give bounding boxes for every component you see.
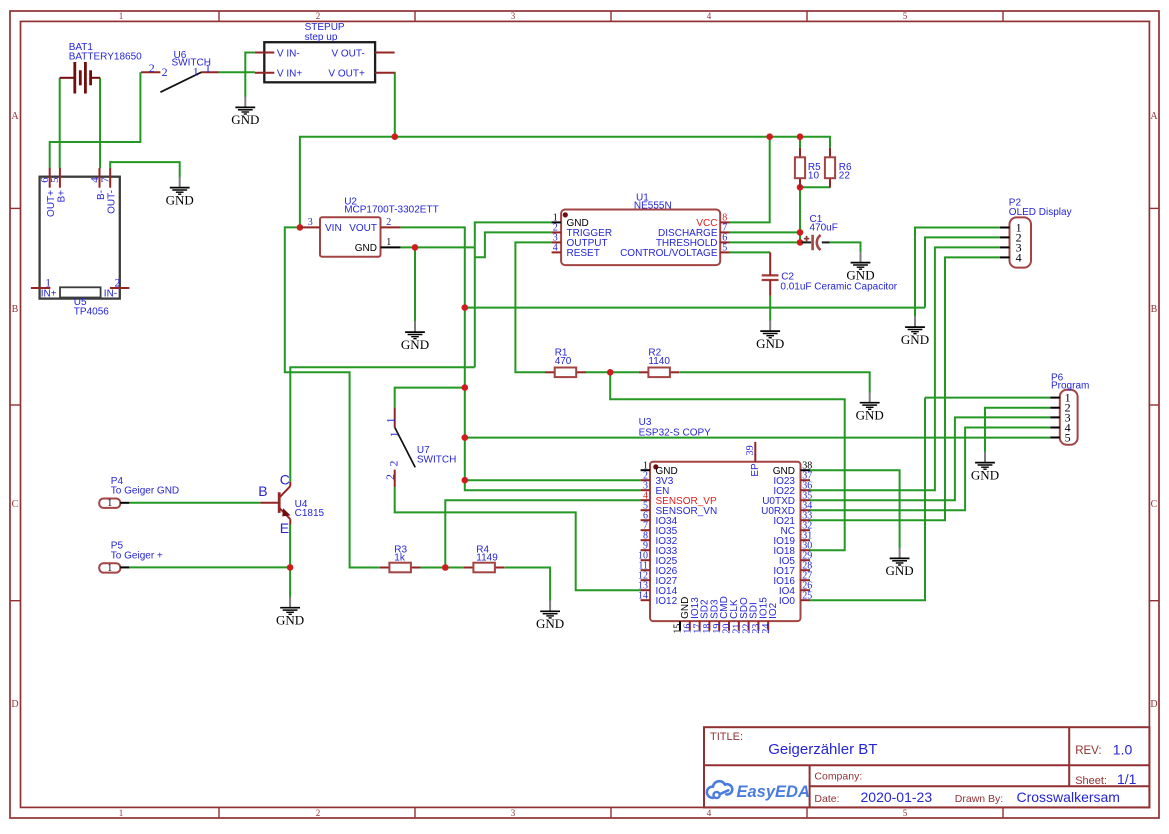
ground C1 (846, 252, 874, 283)
svg-text:2: 2 (316, 11, 321, 21)
U1 pin1 marker (563, 212, 568, 217)
U3 pin 20 stub (728, 621, 730, 631)
wire C1 to GND (830, 242, 861, 252)
wire U1 OUTPUT to R1 (515, 242, 551, 372)
svg-text:IO12: IO12 (656, 596, 678, 607)
P2 pin 1 stub (1000, 227, 1010, 229)
wire OUT- to GND (110, 162, 180, 177)
P5 pin 1 stub (120, 566, 129, 568)
svg-text:1.0: 1.0 (1113, 741, 1133, 757)
U3 pin 11 stub (641, 569, 650, 571)
U3 pin 28 stub (801, 569, 811, 571)
svg-text:24: 24 (761, 624, 772, 634)
svg-text:1140: 1140 (648, 356, 670, 367)
svg-text:2020-01-23: 2020-01-23 (861, 789, 933, 805)
node R1/R2 node (607, 369, 614, 376)
capacitor C2 0.01uF (762, 275, 779, 280)
P6 pin 1 stub (1050, 397, 1060, 399)
U3 pin 4 stub (641, 499, 650, 501)
svg-text:step up: step up (305, 32, 338, 43)
svg-text:3: 3 (511, 808, 516, 818)
U1 pin 7 stub (720, 231, 729, 233)
svg-text:ESP32-S COPY: ESP32-S COPY (639, 428, 712, 439)
EasyEDA logo (707, 781, 732, 798)
U3 pin 24 stub (767, 621, 769, 631)
svg-text:To Geiger GND: To Geiger GND (111, 486, 179, 497)
svg-text:5: 5 (903, 808, 908, 818)
U3 pin 8 stub (641, 539, 650, 541)
svg-text:1k: 1k (394, 553, 406, 564)
wire U2 GND to riser (400, 246, 474, 248)
svg-text:A: A (11, 111, 19, 122)
wire 3V3 to U7 pin1 (395, 388, 465, 408)
svg-text:B+: B+ (56, 190, 67, 203)
U1 pin 8 stub (720, 221, 729, 223)
wire P2 pin2 down to 3V3 rail (925, 237, 1000, 307)
svg-text:V IN+: V IN+ (277, 69, 302, 80)
U3 pin 29 stub (801, 559, 811, 561)
U3 pin 17 stub (699, 621, 701, 631)
svg-text:SWITCH: SWITCH (417, 454, 456, 465)
svg-text:1: 1 (386, 237, 391, 248)
U3 pin 22 stub (748, 621, 750, 631)
wire R4 to GND (505, 568, 550, 602)
wire 3V3 branch to P6 pin5 / IO18 (465, 437, 1051, 439)
battery BAT1 (60, 62, 100, 94)
wire U1 VCC to rail (730, 137, 770, 223)
node 3V3 rail tap (462, 304, 469, 311)
U3 pin 10 stub (641, 559, 650, 561)
svg-text:OLED Display: OLED Display (1009, 207, 1072, 218)
svg-text:EasyEDA: EasyEDA (737, 783, 810, 801)
wire OUT+ to U6 pin2 (50, 72, 141, 168)
U3 pin 18 stub (708, 621, 710, 631)
title block (704, 727, 1149, 807)
ground P6 pin2 (971, 452, 999, 483)
node rail/R5 (797, 133, 804, 140)
U1 pin 6 stub (720, 241, 729, 243)
svg-text:5: 5 (1065, 430, 1071, 444)
svg-text:1: 1 (119, 11, 124, 21)
U3 pin 38 stub (801, 469, 811, 471)
U3 pin 19 stub (718, 621, 720, 631)
svg-text:U3: U3 (639, 417, 652, 428)
wire 3V3 to ESP 3V3 pin (465, 479, 641, 481)
P6 pin 3 stub (1050, 416, 1060, 418)
U3 pin 21 stub (738, 621, 740, 631)
wire U1 TRIGGER jog (475, 232, 552, 257)
wire R2 to GND (680, 372, 870, 392)
ground C2 (756, 320, 784, 351)
U3 pin 5 stub (641, 509, 650, 511)
svg-text:Program: Program (1051, 381, 1089, 392)
U3 pin 36 stub (801, 489, 811, 491)
wire R5 bottom down to discharge/threshold (799, 187, 801, 242)
svg-text:GND: GND (355, 243, 377, 254)
wire ESP IO21 to P2 pin4 (810, 257, 1000, 520)
wire V OUT+ down to rail (394, 73, 396, 137)
ground ESP GND38 (886, 547, 914, 578)
wire IO0 riser to P6 pin1 (925, 397, 1050, 399)
resistor R4 (464, 567, 474, 569)
wire rail to R5 top (799, 137, 801, 148)
svg-text:B: B (1151, 304, 1158, 315)
U3 pin1 marker (653, 464, 658, 469)
resistor R6 (829, 148, 831, 158)
node U2 GND node (412, 244, 419, 251)
U5 pin 6 stub (49, 168, 51, 188)
U3 pin 33 stub (801, 519, 811, 521)
wire U2 VOUT down to ESP EN (400, 227, 640, 490)
wire U1 DISCHARGE (730, 231, 801, 233)
svg-text:IO2: IO2 (768, 602, 779, 619)
svg-text:OUT-: OUT- (107, 190, 118, 214)
U3 pin 31 stub (801, 539, 811, 541)
wire BAT1 + to B+ pin (59, 78, 61, 168)
U5 pin 4 stub (99, 168, 101, 188)
U3 pin 9 stub (641, 549, 650, 551)
U5 pin 2 stub (110, 287, 129, 289)
wire U1 CONTROL to C2 (730, 251, 771, 253)
regulator U2 MCP1700T-3302ETT (320, 217, 381, 256)
svg-text:4: 4 (1016, 250, 1022, 264)
svg-text:VOUT: VOUT (349, 223, 377, 234)
node threshold node (797, 239, 804, 246)
svg-text:EP: EP (750, 463, 761, 477)
node VIN/U2 pin3 (297, 224, 304, 231)
U6 pin1 stub (201, 71, 218, 73)
U3 pin 27 stub (801, 579, 811, 581)
node discharge node (797, 229, 804, 236)
U3 pin 13 stub (641, 589, 650, 591)
wire R3/R4 node to SENSOR_VP (445, 500, 640, 567)
wire U7 pin2 to ESP IO14 (395, 487, 641, 590)
svg-text:2: 2 (388, 460, 400, 466)
U1 pin 3 stub (552, 241, 562, 243)
wire ESP U0RXD to P6 pin4 (810, 428, 1050, 511)
U3 pin 37 stub (801, 479, 811, 481)
wire P6 pin2 to GND (985, 408, 1050, 453)
svg-text:RESET: RESET (567, 248, 600, 259)
ground R2 (856, 392, 884, 423)
timer U1 NE555N (561, 210, 720, 266)
module STEPUP step up converter (264, 42, 375, 82)
wire R1/R2 node to ESP IO18 (610, 372, 845, 550)
svg-text:5: 5 (722, 243, 727, 254)
svg-text:14: 14 (638, 591, 648, 602)
node R5/R6 bottom (797, 184, 804, 191)
resistor R5 (799, 148, 801, 158)
wire ESP U0TXD to P6 pin3 (810, 417, 1050, 500)
U1 pin 2 stub (552, 231, 562, 233)
capacitor C1 470uF (802, 241, 830, 243)
node 3V3 pin tap (462, 477, 469, 484)
wire 3V3 rail to P2 pin2 (465, 307, 925, 309)
svg-text:V OUT+: V OUT+ (328, 69, 365, 80)
wire trigger line to Q collector (290, 367, 475, 481)
resistor R2 (639, 371, 649, 373)
U3 pin 23 stub (757, 621, 759, 631)
svg-text:470uF: 470uF (810, 223, 838, 234)
U2 pin 2 VOUT stub (381, 226, 401, 228)
transistor U4 C1815 (260, 482, 290, 525)
ground R4 (536, 600, 564, 631)
node R3/R4 node (442, 564, 449, 571)
svg-text:TITLE:: TITLE: (710, 731, 743, 743)
svg-text:2: 2 (162, 65, 168, 79)
svg-text:10: 10 (808, 170, 820, 181)
U1 pin 1 stub (552, 221, 562, 223)
svg-text:C: C (1151, 499, 1158, 510)
svg-text:IN-: IN- (104, 289, 117, 300)
svg-text:1149: 1149 (476, 553, 498, 564)
svg-text:1: 1 (389, 431, 401, 437)
switch U6 blade (160, 72, 201, 92)
U5 pin 5 stub (59, 168, 61, 188)
svg-text:B: B (258, 483, 267, 499)
U3 pin 30 stub (801, 549, 811, 551)
wire C2 to GND (769, 296, 771, 321)
U6 pin2 stub (141, 71, 160, 73)
svg-text:5: 5 (903, 11, 908, 21)
ground U2 GND (401, 321, 429, 352)
svg-text:CONTROL/VOLTAGE: CONTROL/VOLTAGE (620, 248, 718, 259)
wire U1 GND riser (475, 222, 552, 367)
P6 pin 2 stub (1050, 407, 1060, 409)
svg-text:Drawn By:: Drawn By: (955, 793, 1003, 805)
U3 pin 34 stub (801, 509, 811, 511)
svg-text:VIN: VIN (325, 223, 342, 234)
U3 pin 6 stub (641, 519, 650, 521)
wire emitter to GND (289, 525, 291, 598)
svg-text:2: 2 (386, 217, 391, 228)
U3 pin 12 stub (641, 579, 650, 581)
U7 pin2 stub (394, 470, 396, 487)
svg-text:E: E (280, 520, 289, 536)
P6 pin 4 stub (1050, 427, 1060, 429)
svg-text:1: 1 (205, 61, 211, 75)
svg-text:C: C (12, 499, 19, 510)
STEPUP V IN+ pin (255, 72, 274, 74)
svg-text:2: 2 (316, 808, 321, 818)
svg-text:4: 4 (707, 808, 712, 818)
STEPUP V OUT+ pin (375, 72, 395, 74)
svg-text:1: 1 (193, 64, 199, 78)
svg-text:To Geiger +: To Geiger + (111, 550, 163, 561)
U3 pin 32 stub (801, 529, 811, 531)
svg-text:7: 7 (100, 177, 112, 183)
ground Q2 emitter (276, 597, 304, 628)
wire V IN- to GND (245, 53, 255, 98)
resistor R1 (545, 371, 555, 373)
svg-text:A: A (1150, 111, 1158, 122)
wire ESP GND pin38 to ground (810, 470, 900, 548)
svg-text:V IN-: V IN- (277, 48, 300, 59)
node P6.5 tap (462, 434, 469, 441)
P6 pin 5 stub (1050, 437, 1060, 439)
U2 pin 3 VIN stub (300, 226, 320, 228)
P2 pin 3 stub (1000, 246, 1010, 248)
svg-text:Geigerzähler BT: Geigerzähler BT (768, 741, 877, 758)
svg-text:0.01uF Ceramic Capacitor: 0.01uF Ceramic Capacitor (780, 281, 897, 292)
svg-text:2: 2 (149, 61, 155, 75)
node rail/VOUT+ (392, 133, 399, 140)
ground stepup V IN- (231, 96, 259, 127)
wire VIN top rail (300, 137, 830, 228)
node U7 tap (462, 384, 469, 391)
U3 pin 39 EP stub (754, 442, 756, 462)
svg-text:C1815: C1815 (295, 508, 325, 519)
switch U7 blade (395, 427, 416, 467)
P4 pin 1 stub (120, 502, 129, 504)
U3 pin 25 stub (801, 599, 811, 601)
svg-text:D: D (1150, 699, 1157, 710)
svg-text:Crosswalkersam: Crosswalkersam (1017, 789, 1120, 805)
U3 pin 16 stub (689, 621, 691, 631)
svg-text:39: 39 (745, 445, 756, 455)
wire U1 THRESHOLD to C1 (730, 241, 806, 243)
U2 pin 1 GND stub (381, 246, 401, 248)
U3 pin 2 stub (641, 479, 650, 481)
wire VIN to U2 and R3 (285, 227, 380, 567)
svg-text:1: 1 (119, 808, 124, 818)
U3 pin 26 stub (801, 589, 811, 591)
svg-text:IN+: IN+ (41, 289, 57, 300)
svg-text:1: 1 (107, 563, 112, 574)
U3 pin 1 stub (641, 469, 650, 471)
svg-text:TP4056: TP4056 (74, 307, 109, 318)
svg-text:470: 470 (555, 356, 572, 367)
svg-text:B-: B- (96, 190, 107, 200)
P2 pin 2 stub (1000, 236, 1010, 238)
U3 pin 15 stub (679, 621, 681, 631)
svg-text:2: 2 (385, 474, 397, 480)
svg-text:4: 4 (553, 243, 558, 254)
U5 pin 1 stub (31, 287, 51, 289)
connector P6 Program (1060, 390, 1078, 445)
svg-text:NE555N: NE555N (634, 201, 672, 212)
svg-text:4: 4 (707, 11, 712, 21)
U1 pin 4 stub (552, 251, 562, 253)
module U5 TP4056 (40, 177, 120, 299)
node P5/emitter node (287, 564, 294, 571)
U3 pin 3 stub (641, 489, 650, 491)
svg-text:Company:: Company: (814, 770, 862, 782)
wire U6 pin1 to V IN+ (219, 71, 255, 73)
connector P2 OLED Display (1010, 217, 1032, 267)
wire P2 pin1 to GND (915, 228, 1000, 318)
ground TP4056 OUT- (166, 177, 194, 208)
svg-text:5: 5 (49, 177, 61, 183)
U3 pin 35 stub (801, 499, 811, 501)
connector P4 (99, 499, 120, 508)
svg-text:V OUT-: V OUT- (331, 48, 364, 59)
svg-text:1/1: 1/1 (1117, 771, 1137, 787)
mcu U3 ESP32-S COPY (650, 462, 801, 621)
svg-text:D: D (11, 699, 18, 710)
svg-text:REV:: REV: (1075, 745, 1101, 757)
svg-text:3: 3 (511, 11, 516, 21)
STEPUP V IN- pin (255, 52, 274, 54)
node rail/VCC (766, 133, 773, 140)
svg-text:3: 3 (308, 217, 313, 228)
svg-text:B: B (12, 304, 19, 315)
wire U2 GND down to ground (414, 247, 416, 322)
connector P5 (99, 563, 120, 572)
wire ESP IO22 to P2 pin3 (810, 247, 1000, 490)
svg-text:Date:: Date: (814, 793, 839, 805)
svg-text:1: 1 (386, 417, 398, 423)
U1 pin 5 stub (720, 251, 729, 253)
svg-text:C: C (280, 471, 290, 487)
wire ESP IO0 up to P6 pin1 (810, 398, 925, 601)
U5 pin 7 stub (109, 168, 111, 188)
U3 pin 14 stub (641, 599, 650, 601)
STEPUP V OUT- pin (375, 52, 395, 54)
wire P4 to Q2 base (129, 502, 260, 504)
svg-text:1: 1 (107, 498, 112, 509)
svg-text:BATTERY18650: BATTERY18650 (69, 52, 142, 63)
resistor R3 (380, 567, 390, 569)
svg-text:25: 25 (802, 591, 812, 602)
wire R5 bottom to R6 bottom (800, 186, 830, 188)
P2 pin 4 stub (1000, 256, 1010, 258)
wire BAT1 - to B- pin (99, 78, 101, 168)
wire R3 to R4 (420, 567, 464, 569)
ground P2 pin1 (901, 316, 929, 347)
U3 pin 7 stub (641, 529, 650, 531)
wire P5 to emitter node (129, 566, 290, 568)
svg-text:Sheet:: Sheet: (1075, 775, 1107, 787)
wire R1 to R2 (585, 371, 639, 373)
U7 pin1 stub (394, 408, 396, 428)
svg-text:MCP1700T-3302ETT: MCP1700T-3302ETT (344, 205, 439, 216)
svg-text:22: 22 (839, 170, 851, 181)
svg-text:IO0: IO0 (779, 596, 796, 607)
